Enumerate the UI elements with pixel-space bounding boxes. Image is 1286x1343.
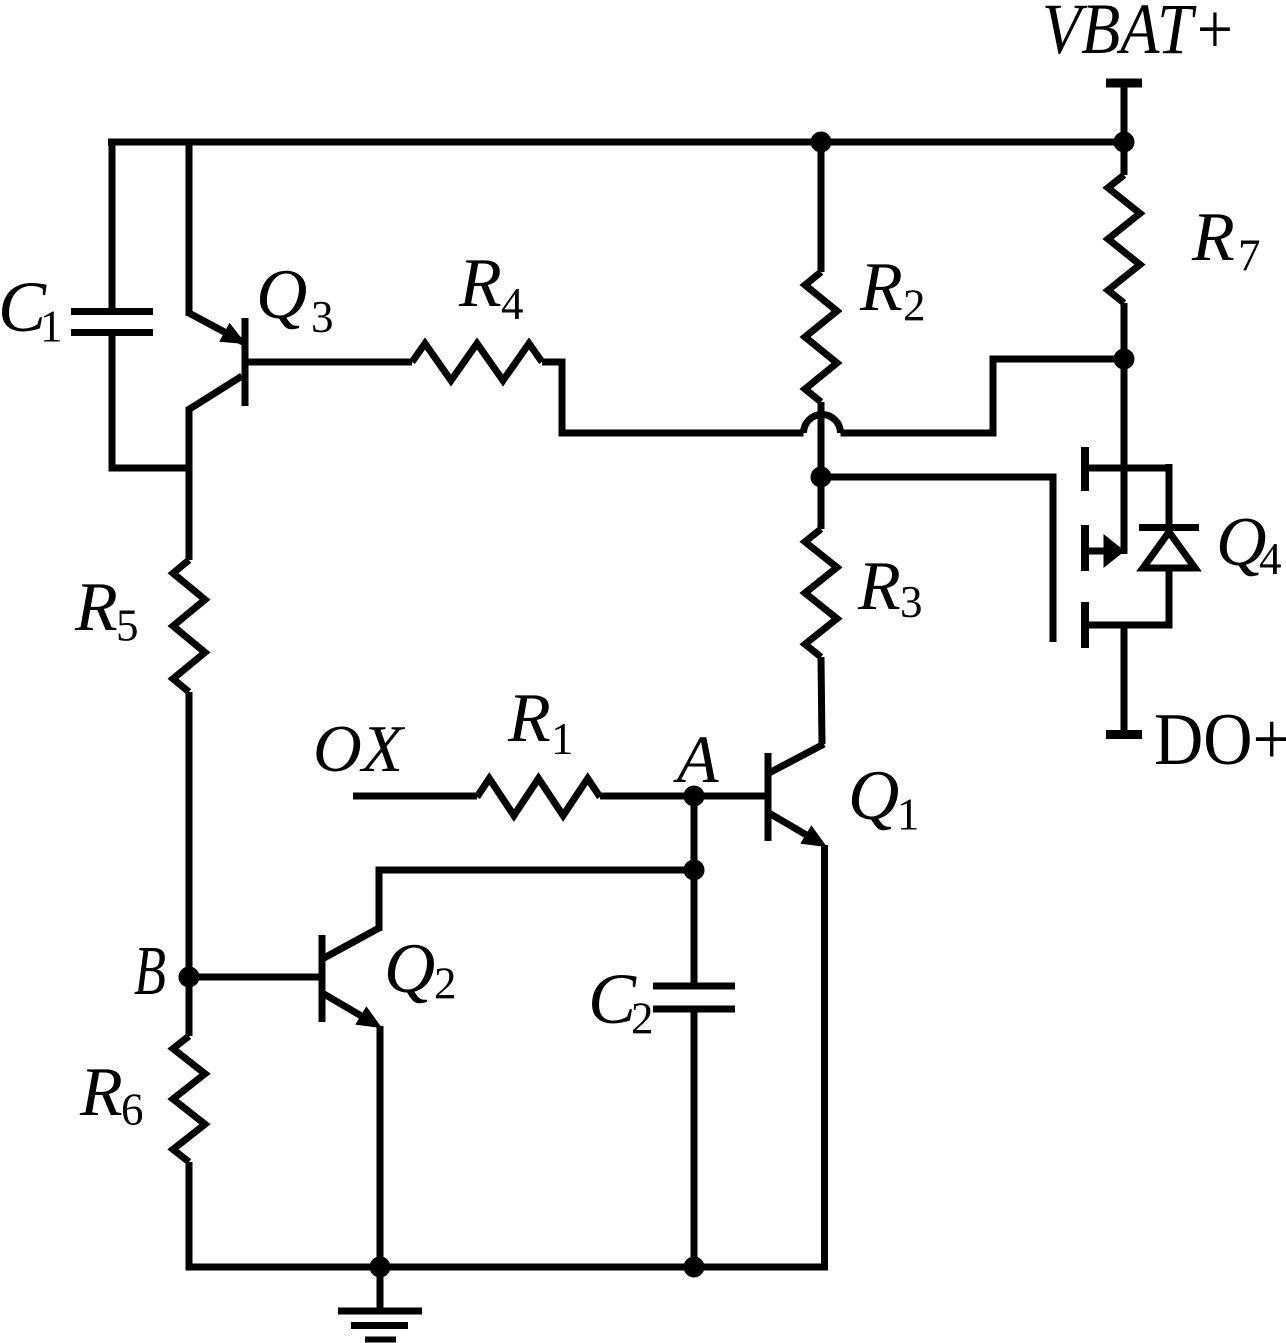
wire top rail to R2 <box>818 142 825 272</box>
wire C2 to bottom rail <box>691 1009 698 1267</box>
resistor R2 zigzag <box>805 272 837 402</box>
wire junction to Q4 gate <box>821 474 1053 481</box>
svg-text:3: 3 <box>900 577 923 627</box>
node junction top-rail/R7 <box>1114 132 1134 152</box>
svg-text:R: R <box>458 245 502 322</box>
transistor Q3 emitter diagonal <box>189 313 243 342</box>
wire top rail <box>108 139 1127 146</box>
svg-text:1: 1 <box>551 714 574 764</box>
transistor Q2 base bar <box>319 935 326 1022</box>
wire node B to Q2 base <box>189 974 322 981</box>
resistor R5 zigzag <box>173 560 205 692</box>
mosfet Q4 gate bar <box>1050 474 1057 643</box>
svg-text:1: 1 <box>897 790 920 840</box>
power terminal VBAT+ bar <box>1106 79 1142 88</box>
node A junction dot <box>684 786 704 806</box>
wire R4 to corner <box>542 362 804 433</box>
ground bar 1 <box>338 1308 422 1315</box>
wire OX input <box>353 793 477 800</box>
transistor Q1 collector diagonal <box>769 744 824 773</box>
resistor R3 zigzag <box>805 529 837 657</box>
wire VBAT+ terminal to top rail <box>1121 83 1128 146</box>
svg-text:B: B <box>134 933 166 1010</box>
wire left rail to Q3 emitter <box>186 139 193 317</box>
wire hop to right corner <box>841 359 1128 433</box>
svg-text:2: 2 <box>631 994 654 1044</box>
diode D-body triangle <box>1143 532 1195 568</box>
transistor Q3 collector diagonal <box>188 376 242 410</box>
svg-text:OX: OX <box>313 712 406 786</box>
svg-text:3: 3 <box>311 292 334 342</box>
transistor Q2 emitter arrow (NPN) <box>356 1007 381 1027</box>
diode D-body cathode bar <box>1139 524 1199 531</box>
svg-text:A: A <box>673 721 719 797</box>
capacitor C2 bottom plate <box>653 1006 735 1013</box>
wire Q3 base to R4 <box>245 359 412 366</box>
wire Q2 collector vertical <box>376 867 383 932</box>
transistor Q3 emitter arrow (PNP) <box>220 324 245 344</box>
diode D-body top lead <box>1166 464 1173 528</box>
node junction A/Q2-collector <box>684 860 704 880</box>
ground stub <box>377 1267 384 1311</box>
resistor R6 zigzag <box>173 1036 205 1162</box>
wire R5 to node B <box>186 692 193 977</box>
svg-text:4: 4 <box>1259 534 1282 584</box>
wire R2 to junction <box>818 402 825 477</box>
transistor Q1 base bar <box>765 753 772 841</box>
resistor R4 zigzag <box>412 344 542 381</box>
svg-text:1: 1 <box>40 302 63 352</box>
wire R6 to bottom rail <box>186 1162 193 1271</box>
svg-text:7: 7 <box>1238 231 1261 281</box>
wire Q2 collector horizontal <box>376 867 695 874</box>
node junction R2/R3/gate <box>811 467 831 487</box>
node B junction dot <box>179 967 199 987</box>
svg-text:R: R <box>1191 199 1235 276</box>
svg-text:C: C <box>588 959 637 1039</box>
wire R1 to Q1 base <box>600 793 765 800</box>
wire R3 to Q1 collector <box>821 657 822 744</box>
wire node B to R6 <box>186 977 193 1036</box>
transistor Q1 emitter diagonal <box>769 813 820 843</box>
wire C1 bottom to left rail <box>109 465 193 472</box>
svg-text:R: R <box>74 569 118 646</box>
capacitor C2 top plate <box>653 983 735 990</box>
wire node A down <box>691 796 698 986</box>
wire Q4 source to DO+ terminal <box>1121 625 1128 732</box>
svg-text:R: R <box>857 548 901 625</box>
transistor Q2 collector diagonal <box>324 928 379 958</box>
mosfet Q4 body arrow head <box>1104 535 1124 567</box>
wire top rail to R7 <box>1121 142 1128 175</box>
capacitor C1 bottom plate <box>71 329 153 336</box>
svg-text:VBAT+: VBAT+ <box>1042 0 1236 69</box>
wire bottom rail <box>186 1264 829 1271</box>
transistor Q1 emitter arrow (NPN) <box>801 826 826 846</box>
mosfet Q4 channel middle dash <box>1081 525 1089 571</box>
transistor Q3 base bar <box>242 318 249 406</box>
svg-text:5: 5 <box>116 601 139 651</box>
wire R7 to junction <box>1121 303 1128 359</box>
mosfet Q4 channel top dash <box>1081 447 1089 491</box>
transistor Q2 emitter diagonal <box>324 994 375 1024</box>
svg-text:DO+: DO+ <box>1154 699 1286 781</box>
wire junction to R3 <box>818 477 825 529</box>
mosfet Q4 source connection <box>1085 622 1169 629</box>
mosfet Q4 body arrow line <box>1085 548 1106 555</box>
svg-text:2: 2 <box>434 959 457 1009</box>
ground bar 2 <box>351 1322 408 1329</box>
mosfet Q4 drain connection <box>1085 465 1169 472</box>
svg-text:R: R <box>859 249 903 326</box>
node junction top-rail/R2 <box>811 132 831 152</box>
wire hop over R2 line <box>804 415 841 434</box>
svg-text:6: 6 <box>121 1085 144 1135</box>
capacitor C1 top plate <box>71 308 153 315</box>
svg-text:R: R <box>79 1054 123 1131</box>
diode D-body bottom lead <box>1166 565 1173 629</box>
wire C1 top branch <box>109 139 116 312</box>
mosfet Q4 channel bottom dash <box>1081 602 1089 648</box>
wire Q2 emitter to ground rail <box>377 1026 384 1267</box>
wire Q1 emitter to bottom rail <box>821 845 828 1271</box>
wire C1 bottom branch <box>109 333 116 468</box>
wire R7 junction to Q4 drain <box>1121 359 1128 554</box>
svg-text:Q: Q <box>848 757 899 835</box>
node junction C2/bottom rail <box>684 1257 704 1277</box>
wire Q3 collector to R5 <box>186 407 193 560</box>
resistor R1 zigzag <box>477 779 600 816</box>
svg-text:2: 2 <box>903 281 926 331</box>
resistor R7 zigzag <box>1108 175 1140 303</box>
node junction Q2-emitter/ground <box>370 1257 390 1277</box>
terminal DO+ bar <box>1106 730 1142 739</box>
ground bar 3 <box>365 1337 396 1343</box>
svg-text:Q: Q <box>256 256 307 334</box>
node junction R7/drain <box>1114 349 1134 369</box>
svg-text:4: 4 <box>501 279 524 329</box>
svg-text:R: R <box>507 680 551 757</box>
svg-text:Q: Q <box>384 930 435 1008</box>
